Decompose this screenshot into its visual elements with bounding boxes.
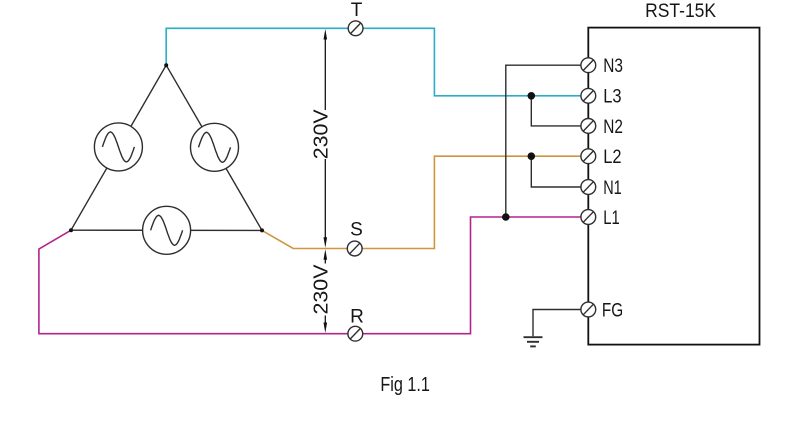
wire cyan phase T: triangle top vertex to terminal T to L3 <box>166 28 581 96</box>
svg-text:N2: N2 <box>603 117 623 138</box>
terminal N3 <box>581 58 596 73</box>
svg-text:RST-15K: RST-15K <box>645 1 716 22</box>
wire orange phase S: triangle right vertex to terminal S to L2 <box>262 156 581 248</box>
junction dot on L1 wire <box>502 213 510 221</box>
terminal L1 <box>581 210 596 225</box>
terminal N2 <box>581 119 596 134</box>
svg-text:T: T <box>351 0 363 21</box>
svg-text:Fig 1.1: Fig 1.1 <box>380 374 430 396</box>
svg-text:L2: L2 <box>603 147 621 168</box>
svg-text:230V: 230V <box>310 109 332 160</box>
junction dot on L3 wire <box>528 92 536 100</box>
svg-text:FG: FG <box>602 300 623 321</box>
terminal L3 <box>581 88 596 103</box>
delta triangle wires <box>71 65 262 230</box>
wire magenta phase R: triangle left vertex to terminal R to L1 <box>39 217 581 334</box>
svg-text:N1: N1 <box>603 178 622 199</box>
svg-text:230V: 230V <box>310 264 332 315</box>
ground <box>524 337 543 346</box>
dimension arrow S-R <box>324 249 328 333</box>
terminal L2 <box>581 149 596 164</box>
AC source G1 (left) <box>94 123 142 171</box>
wire FG to ground <box>533 310 581 337</box>
terminal S <box>347 241 362 256</box>
svg-text:L1: L1 <box>603 208 620 229</box>
svg-text:L3: L3 <box>603 87 621 108</box>
dimension arrow T-S <box>324 29 328 248</box>
svg-text:R: R <box>350 307 364 328</box>
wire jumper L2 to N1 <box>531 156 581 187</box>
terminal FG <box>581 302 596 317</box>
svg-text:N3: N3 <box>603 56 623 77</box>
AC source G2 (right) <box>191 123 239 171</box>
node bottom-left vertex <box>69 228 73 232</box>
wire jumper L3 to N2 <box>531 96 581 126</box>
terminal N1 <box>581 180 596 195</box>
box RST-15K <box>588 28 759 345</box>
AC source G3 (bottom) <box>143 206 191 254</box>
wire black neutral bus: N3 down to L1 wire <box>506 65 581 217</box>
junction dot on L2 wire <box>528 152 536 160</box>
svg-text:S: S <box>350 220 363 241</box>
terminal R <box>348 326 363 341</box>
terminal T <box>348 21 363 36</box>
node top vertex <box>164 63 168 67</box>
node bottom-right vertex <box>260 228 264 232</box>
